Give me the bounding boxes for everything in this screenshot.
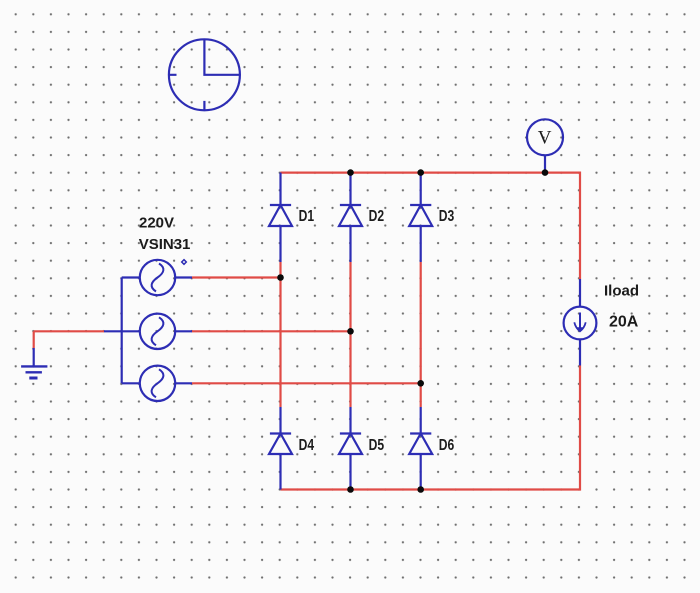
svg-text:D6: D6 <box>439 437 455 454</box>
svg-text:20A: 20A <box>609 313 639 330</box>
svg-text:D3: D3 <box>439 208 455 225</box>
svg-text:D2: D2 <box>369 208 385 225</box>
svg-text:V: V <box>538 128 552 149</box>
svg-text:D5: D5 <box>369 437 385 454</box>
svg-text:D4: D4 <box>299 437 315 454</box>
svg-text:220V: 220V <box>139 214 174 231</box>
svg-text:VSIN31: VSIN31 <box>139 236 191 253</box>
svg-text:D1: D1 <box>299 208 315 225</box>
svg-text:Iload: Iload <box>604 283 639 300</box>
